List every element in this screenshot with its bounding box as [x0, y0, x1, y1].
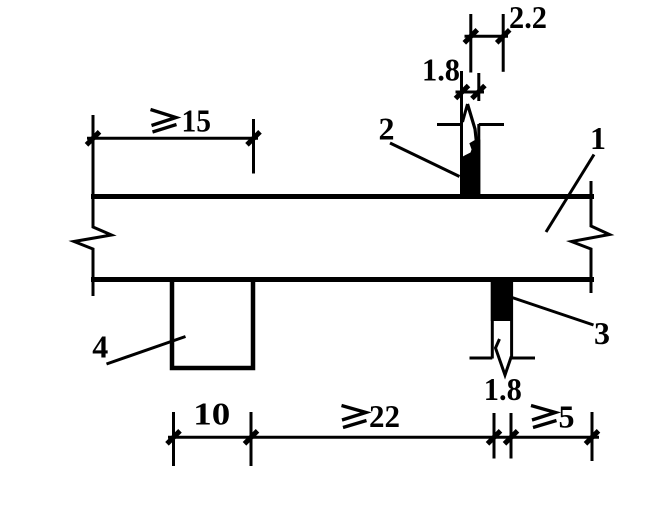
bottom ext line x592: [591, 412, 594, 461]
svg-text:1.8: 1.8: [484, 371, 522, 407]
pipe 2 right edge upper: [477, 73, 480, 101]
svg-text:1.8: 1.8: [422, 52, 460, 88]
bottom ext line x173: [172, 412, 175, 466]
svg-text:1: 1: [590, 120, 606, 156]
label 4 leader: [107, 337, 186, 365]
pipe 2 right edge lower: [477, 124, 480, 196]
pipe 2 break tear left stroke: [463, 104, 468, 122]
svg-text:15: 15: [182, 103, 212, 139]
dim 1.8 top tick right: [472, 86, 485, 99]
bottom tick x511: [505, 431, 518, 444]
dim >=5 text: [531, 406, 556, 421]
dim 1.8 top dimension line: [456, 91, 485, 94]
dim 2.2 extension line left: [469, 14, 472, 73]
svg-text:22: 22: [369, 398, 400, 434]
svg-text:2: 2: [379, 111, 395, 147]
dim >=15 tick left: [87, 132, 100, 145]
pipe 3 left edge: [491, 280, 494, 359]
svg-text:3: 3: [594, 315, 610, 351]
dim 2.2 tick right: [497, 30, 510, 43]
pipe 2 break tear right stroke: [468, 104, 477, 153]
pipe 2 sleeve line right: [479, 123, 504, 126]
slab top line: [91, 194, 594, 199]
bottom ext line x251: [250, 412, 253, 466]
dim >=15 tick right: [247, 132, 260, 145]
svg-text:10: 10: [193, 396, 230, 432]
slab right break edge: [572, 181, 610, 293]
svg-text:4: 4: [92, 329, 108, 365]
label 2 leader: [390, 143, 460, 177]
label 1 leader: [546, 155, 594, 233]
pipe 3 sleeve line left: [470, 357, 493, 360]
pipe 3 right edge: [510, 280, 513, 358]
beam 4 outline: [172, 280, 253, 368]
pipe 3 sleeve line right: [512, 357, 535, 360]
dim 2.2 tick left: [464, 30, 477, 43]
pipe 3 black fill: [491, 279, 513, 321]
dim >=15 extension line right: [252, 119, 255, 174]
pipe 2 sleeve line left: [437, 123, 462, 126]
pipe 2 left edge: [460, 71, 463, 196]
bottom tick x494: [488, 431, 501, 444]
dim 1.8 top tick left: [456, 86, 469, 99]
label 3 leader: [512, 298, 594, 326]
pipe 3 break tear: [496, 339, 512, 375]
bottom ext line x494: [493, 413, 496, 459]
slab left break edge: [74, 115, 112, 296]
dim >=15 dimension line: [87, 137, 258, 140]
svg-text:5: 5: [559, 399, 575, 435]
pipe 2 black fill: [460, 140, 480, 197]
dim >=15 text: custom GE symbol: [151, 110, 177, 126]
bottom tick x173: [167, 431, 180, 444]
svg-text:2.2: 2.2: [509, 0, 547, 35]
bottom tick x251: [245, 431, 258, 444]
dim >=22 text: [342, 406, 367, 421]
bottom dimension line: [168, 436, 599, 439]
dim 2.2 extension line right: [502, 14, 505, 72]
slab bottom line: [91, 277, 594, 282]
bottom ext line x511: [510, 413, 513, 459]
bottom tick x592: [586, 431, 599, 444]
dim 2.2 dimension line: [465, 35, 509, 38]
